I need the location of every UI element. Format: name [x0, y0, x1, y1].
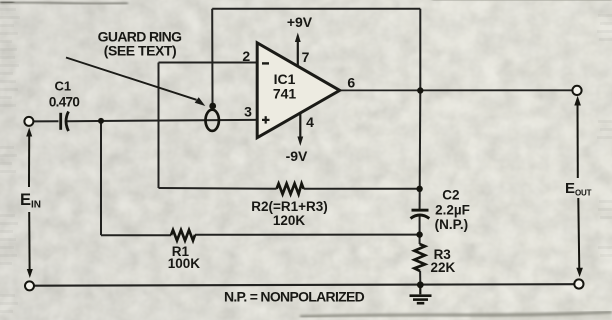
wire: R3 bottom to ground node — [419, 271, 421, 285]
svg-text:(SEE TEXT): (SEE TEXT) — [104, 43, 177, 59]
terminal: Eout bottom — [574, 279, 583, 288]
op-amp minus sign — [262, 62, 269, 64]
Ein annotation arrows — [26, 128, 33, 279]
wire: output rail vertical to C2 — [419, 91, 422, 210]
Eout annotation arrows — [574, 96, 583, 277]
terminal: Ein bottom — [25, 281, 34, 290]
svg-text:22K: 22K — [431, 260, 456, 275]
svg-text:(N.P.): (N.P.) — [435, 217, 469, 232]
wire: top feedback wire (output to guard) — [212, 8, 420, 10]
svg-text:N.P. = NONPOLARIZED: N.P. = NONPOLARIZED — [224, 289, 365, 305]
scan artifact: top-left dark smear — [0, 2, 128, 4]
wire: input node vertical down to R1 — [100, 121, 102, 235]
wire: output from pin6 to Eout terminal — [340, 89, 573, 91]
guard ring ellipse — [206, 110, 219, 131]
ground — [410, 285, 432, 303]
node: R2/output rail junction — [416, 186, 422, 192]
svg-text:4: 4 — [306, 114, 314, 130]
-9V supply arrow — [297, 113, 303, 146]
wire: guard drive vertical — [211, 9, 213, 104]
wire: box left edge down — [158, 63, 160, 189]
wire: R1 wire right segment — [195, 234, 420, 236]
svg-text:6: 6 — [347, 75, 355, 91]
svg-text:-9V: -9V — [286, 148, 308, 164]
+9V supply arrow — [295, 33, 301, 67]
capacitor C1 — [59, 112, 68, 132]
svg-text:0.470: 0.470 — [49, 95, 79, 110]
svg-text:C1: C1 — [54, 79, 71, 94]
guard ring node dot — [209, 103, 216, 110]
resistor R3 — [414, 244, 425, 271]
node: input junction — [98, 118, 104, 124]
scan artifact: top-right thin line — [432, 0, 612, 2]
svg-text:3: 3 — [244, 104, 252, 120]
terminal: Ein top — [24, 117, 33, 126]
wire: pin2 to box — [159, 62, 258, 64]
wire: R2 wire right segment — [304, 188, 420, 190]
scan artifact: bottom dark smear — [300, 312, 612, 317]
svg-text:R2(=R1+R3): R2(=R1+R3) — [251, 199, 328, 214]
svg-text:741: 741 — [273, 86, 297, 102]
guard ring pointer arrow — [66, 58, 205, 107]
op-amp plus sign — [262, 116, 270, 123]
wire: output rail vertical upper — [419, 9, 421, 91]
svg-text:120K: 120K — [273, 213, 306, 228]
resistor R2 — [277, 184, 304, 195]
node: R1/C2/R3 junction — [416, 231, 422, 237]
node: output junction — [417, 87, 423, 93]
wire: C2 to R1 node — [419, 215, 421, 244]
svg-text:+9V: +9V — [287, 14, 313, 30]
wire: R1 wire left segment — [101, 234, 171, 236]
svg-text:2: 2 — [242, 48, 250, 64]
wire: input wire from terminal to C1 — [34, 120, 59, 122]
svg-text:100K: 100K — [168, 256, 201, 271]
op-amp IC1 (741) — [257, 43, 340, 138]
wire: R2 wire left segment — [159, 187, 277, 190]
svg-text:C2: C2 — [442, 188, 459, 203]
scan artifact: bottom-right shade — [470, 313, 612, 320]
terminal: Eout top — [572, 86, 581, 95]
svg-text:2.2µF: 2.2µF — [435, 203, 470, 218]
wire: input wire C1 to op-amp pin3 — [67, 120, 258, 121]
node: ground junction — [417, 281, 424, 288]
resistor R1 — [171, 230, 195, 241]
capacitor C2 — [411, 209, 430, 219]
wire: bottom ground wire — [34, 284, 574, 286]
svg-text:7: 7 — [302, 49, 310, 65]
